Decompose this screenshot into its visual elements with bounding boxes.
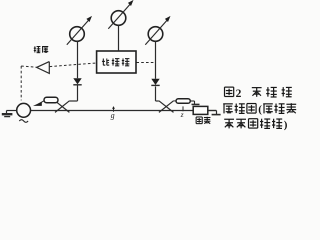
svg-text:2: 2 (236, 88, 242, 100)
svg-text:(: ( (258, 104, 262, 116)
svg-text:): ) (284, 119, 288, 131)
svg-text:g: g (111, 111, 115, 120)
svg-text:z: z (180, 110, 184, 119)
